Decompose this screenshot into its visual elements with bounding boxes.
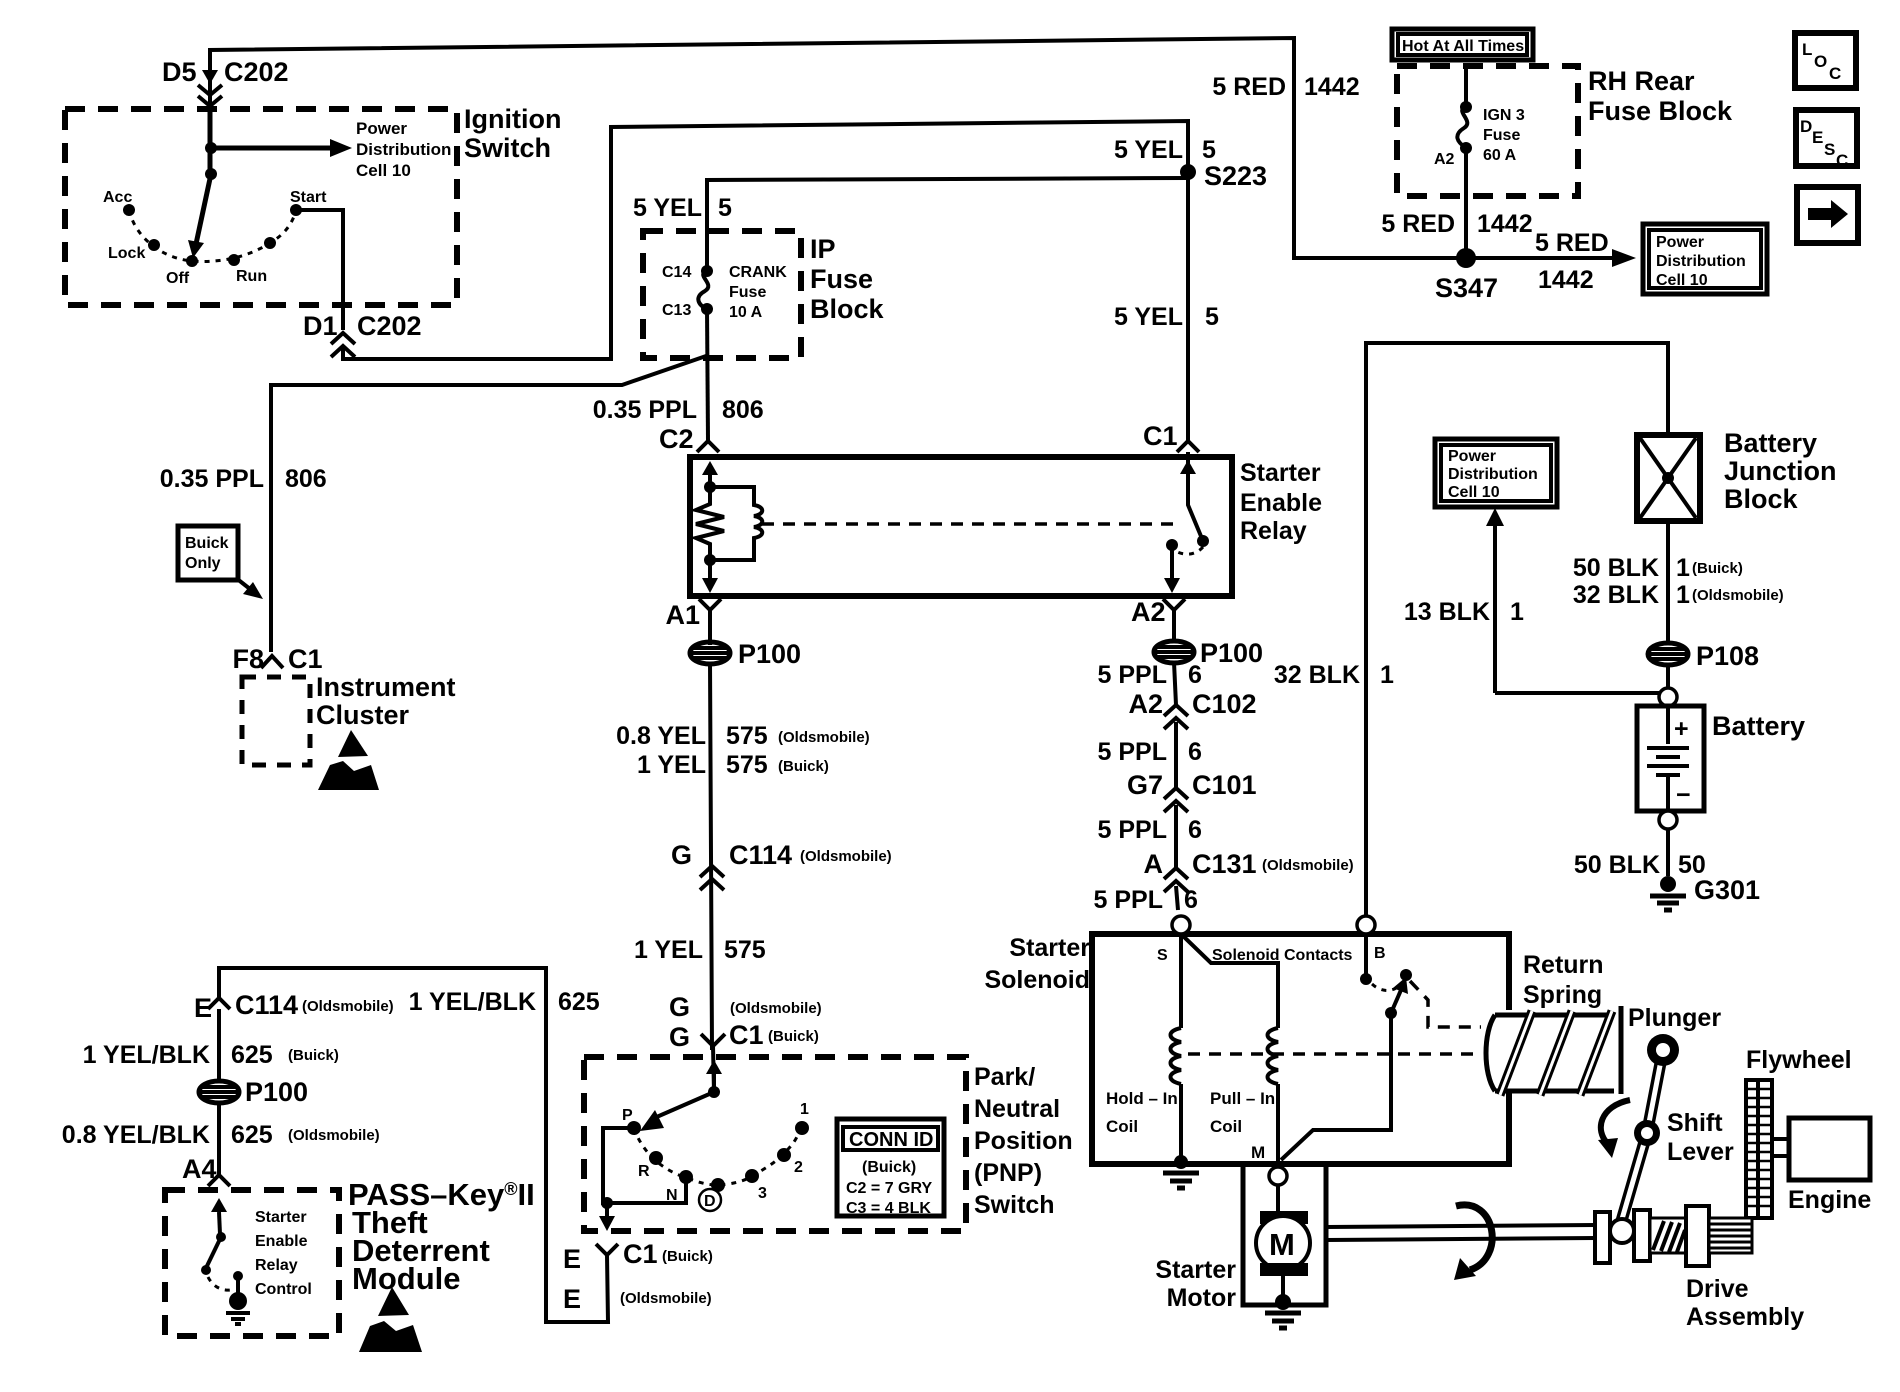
svg-text:Fuse: Fuse — [729, 284, 766, 301]
svg-text:50 BLK: 50 BLK — [1573, 554, 1659, 582]
wire: battery + to power distribution (13 BLK) — [1493, 524, 1497, 693]
Buick Only callout box — [178, 526, 238, 580]
svg-text:C14: C14 — [662, 264, 691, 281]
svg-text:1 YEL: 1 YEL — [637, 751, 706, 779]
Power Distribution Cell 10 box (battery) — [1435, 439, 1557, 507]
svg-text:Neutral: Neutral — [974, 1095, 1060, 1123]
svg-text:P: P — [622, 1107, 633, 1124]
wire: motor to ground — [1281, 1276, 1285, 1300]
svg-text:Position: Position — [974, 1127, 1073, 1155]
contact Start — [290, 204, 302, 216]
wire: B terminal to fixed contact — [1364, 934, 1368, 976]
svg-text:625: 625 — [231, 1041, 273, 1069]
contact Lock — [148, 239, 160, 251]
svg-text:10 A: 10 A — [729, 304, 763, 321]
mechanical dashed link contacts to plunger — [1410, 981, 1481, 1027]
svg-text:Plunger: Plunger — [1628, 1004, 1721, 1032]
connector D5 C202 (arrow + double chevron) — [198, 70, 222, 106]
svg-text:0.8 YEL: 0.8 YEL — [616, 722, 706, 750]
svg-text:C114: C114 — [235, 990, 298, 1020]
svg-text:5: 5 — [1205, 303, 1219, 331]
svg-text:IP: IP — [810, 234, 836, 264]
svg-text:1442: 1442 — [1477, 210, 1533, 238]
svg-text:E: E — [194, 993, 212, 1023]
svg-text:50 BLK: 50 BLK — [1574, 851, 1660, 879]
contact N — [679, 1170, 693, 1184]
svg-text:P100: P100 — [1200, 638, 1263, 668]
connector A C131 (Oldsmobile) double chevron — [1164, 868, 1188, 892]
contact Off — [186, 255, 198, 267]
svg-text:Cell 10: Cell 10 — [356, 161, 411, 180]
wire: M contact link inside solenoid — [1281, 1013, 1391, 1160]
terminal B (circle) — [1357, 916, 1375, 934]
svg-text:Battery: Battery — [1712, 711, 1805, 741]
svg-text:Block: Block — [1724, 484, 1799, 514]
svg-text:C1: C1 — [729, 1020, 764, 1050]
connector P108 — [1648, 643, 1688, 665]
engine block — [1789, 1118, 1870, 1180]
svg-text:C1: C1 — [288, 644, 323, 674]
svg-text:Spring: Spring — [1523, 981, 1602, 1009]
svg-text:G: G — [671, 840, 692, 870]
svg-text:Motor: Motor — [1167, 1284, 1237, 1312]
svg-text:5 RED: 5 RED — [1535, 229, 1609, 257]
svg-text:(Buick): (Buick) — [862, 1159, 916, 1176]
svg-text:Starter: Starter — [1240, 459, 1321, 487]
wire into PNP box — [713, 1046, 714, 1092]
node: coil bottom — [704, 554, 716, 566]
pull-in coil branch — [1181, 934, 1278, 1162]
svg-text:32 BLK: 32 BLK — [1274, 661, 1360, 689]
svg-text:(Oldsmobile): (Oldsmobile) — [1692, 587, 1784, 604]
instrument cluster dashed box — [242, 677, 310, 765]
relay coil input arrow (C2 side) — [708, 470, 712, 484]
PNP contact arc (dashed) — [634, 1128, 800, 1185]
svg-text:D: D — [1800, 117, 1812, 136]
ground (starter motor) — [1265, 1294, 1301, 1328]
connector A4 — [208, 1175, 230, 1186]
svg-text:13 BLK: 13 BLK — [1404, 598, 1490, 626]
CONN ID table — [837, 1119, 944, 1217]
contact R — [649, 1151, 663, 1165]
svg-text:Engine: Engine — [1788, 1186, 1871, 1214]
crankshaft link flywheel to engine — [1772, 1139, 1789, 1156]
contact Run — [228, 254, 240, 266]
svg-text:806: 806 — [722, 396, 764, 424]
wire: arrow to Power Distribution Cell 10 — [211, 146, 332, 151]
svg-text:CRANK: CRANK — [729, 264, 787, 281]
fuse CRANK 10A (element) — [698, 265, 713, 315]
svg-text:Solenoid: Solenoid — [984, 966, 1090, 994]
svg-text:RH Rear: RH Rear — [1588, 66, 1695, 96]
svg-text:E: E — [563, 1244, 581, 1274]
wire: Start to D1 — [296, 210, 343, 330]
node: junction dot to power distribution — [205, 142, 217, 154]
wire: 13 BLK tap — [1495, 691, 1659, 695]
node: coil top — [704, 481, 716, 493]
starter motor M1 — [1256, 1211, 1310, 1276]
svg-text:6: 6 — [1184, 886, 1198, 914]
wire: D5 into switch, junction — [208, 104, 213, 174]
svg-text:CONN ID: CONN ID — [849, 1129, 933, 1151]
wire: fuse output to S347 — [1464, 148, 1468, 258]
svg-text:(Oldsmobile): (Oldsmobile) — [288, 1127, 380, 1144]
svg-text:5 PPL: 5 PPL — [1098, 816, 1167, 844]
svg-text:C102: C102 — [1192, 689, 1257, 719]
svg-text:1: 1 — [1510, 598, 1524, 626]
svg-text:C3 = 4 BLK: C3 = 4 BLK — [846, 1200, 931, 1217]
svg-text:Hot At All Times: Hot At All Times — [1402, 38, 1524, 55]
svg-text:0.8 YEL/BLK: 0.8 YEL/BLK — [62, 1121, 210, 1149]
svg-text:C: C — [1829, 64, 1841, 83]
node: battery positive terminal (circle) — [1659, 688, 1677, 706]
svg-text:Buick: Buick — [185, 535, 229, 552]
svg-text:5 YEL: 5 YEL — [1114, 136, 1183, 164]
svg-text:Shift: Shift — [1667, 1109, 1723, 1137]
node: hold-in coil to ground — [1174, 1155, 1188, 1169]
connector A1 (relay output fork) — [699, 599, 721, 610]
svg-text:O: O — [1814, 52, 1827, 71]
svg-text:Pull – In: Pull – In — [1210, 1089, 1275, 1108]
svg-text:(Oldsmobile): (Oldsmobile) — [730, 1000, 822, 1017]
svg-text:Switch: Switch — [974, 1191, 1055, 1219]
connector P100 (PASS-Key wire) — [199, 1081, 239, 1103]
svg-text:3: 3 — [758, 1185, 767, 1202]
PASS-Key internal feed arrow — [219, 1212, 220, 1234]
svg-text:1: 1 — [800, 1101, 809, 1118]
LOC legend box — [1795, 33, 1856, 88]
relay resistor (parallel with coil) — [696, 487, 724, 560]
wire: S223 down to relay C1 — [1186, 172, 1190, 440]
svg-text:5 YEL: 5 YEL — [1114, 303, 1183, 331]
svg-text:C2: C2 — [659, 424, 694, 454]
svg-text:0.35 PPL: 0.35 PPL — [160, 465, 264, 493]
connector P100 (A1 wire) — [690, 642, 730, 664]
wire: A1 down to PNP switch — [710, 610, 712, 1050]
svg-text:S223: S223 — [1204, 161, 1267, 191]
svg-text:Flywheel: Flywheel — [1746, 1046, 1852, 1074]
svg-text:5 PPL: 5 PPL — [1094, 886, 1163, 914]
svg-text:6: 6 — [1188, 661, 1202, 689]
svg-text:Enable: Enable — [255, 1233, 308, 1250]
svg-text:Cell 10: Cell 10 — [1448, 484, 1500, 501]
svg-text:32 BLK: 32 BLK — [1573, 581, 1659, 609]
svg-text:1: 1 — [1676, 554, 1690, 582]
connector G C114 (Oldsmobile) double chevron — [700, 866, 724, 890]
wire: battery to G301 — [1666, 829, 1670, 876]
svg-text:Starter: Starter — [1155, 1256, 1236, 1284]
svg-text:A2: A2 — [1434, 151, 1455, 168]
svg-text:Cell 10: Cell 10 — [1656, 272, 1708, 289]
ignition switch wiper arm — [205, 168, 217, 180]
svg-text:6: 6 — [1188, 738, 1202, 766]
svg-text:Fuse Block: Fuse Block — [1588, 96, 1733, 126]
wire: junction block to P108 — [1666, 521, 1670, 689]
svg-text:1 YEL: 1 YEL — [634, 936, 703, 964]
connector D1 C202 (double chevron) — [331, 333, 355, 357]
svg-text:Enable: Enable — [1240, 489, 1322, 517]
fixed contact (right) — [1400, 969, 1412, 981]
relay U1: Starter Enable Relay box — [690, 457, 1232, 596]
svg-text:A: A — [1144, 849, 1164, 879]
svg-text:C114: C114 — [729, 840, 792, 870]
contact 1 — [795, 1121, 809, 1135]
solenoid movable contact — [1385, 1007, 1397, 1019]
ground G301 — [1650, 876, 1686, 910]
svg-text:575: 575 — [726, 751, 768, 779]
battery BT1 — [1637, 706, 1704, 811]
svg-text:(Oldsmobile): (Oldsmobile) — [1262, 857, 1354, 874]
wire: PNP output loop to PASS-Key module — [219, 968, 608, 1322]
svg-text:5 PPL: 5 PPL — [1098, 738, 1167, 766]
shaft rotation arrow — [1454, 1205, 1492, 1280]
svg-text:IGN 3: IGN 3 — [1483, 107, 1525, 124]
svg-text:Power: Power — [356, 119, 407, 138]
forward legend box (arrow) — [1797, 187, 1858, 243]
svg-text:(Buick): (Buick) — [662, 1248, 713, 1265]
svg-text:Switch: Switch — [464, 133, 551, 163]
ignition rotary contact arc (dashed) — [129, 210, 296, 261]
svg-text:(Oldsmobile): (Oldsmobile) — [302, 998, 394, 1015]
battery junction block — [1637, 435, 1700, 521]
wire: D1 to S223 via loop — [343, 121, 1188, 359]
PNP wiper feed arrow — [712, 1072, 716, 1092]
svg-text:625: 625 — [231, 1121, 273, 1149]
relay mechanical dashed link — [762, 522, 1178, 526]
drive assembly — [1595, 1206, 1752, 1266]
wire: fuse C13 down to relay C2 — [707, 309, 708, 440]
connector E C1 (Buick) fork — [596, 1244, 618, 1255]
svg-text:Starter: Starter — [1009, 934, 1090, 962]
connector A2 C102 double chevron — [1164, 705, 1188, 729]
connector C1 (relay) — [1177, 441, 1199, 452]
svg-text:P100: P100 — [738, 639, 801, 669]
wire: S347 arrow to power distribution — [1466, 256, 1614, 260]
svg-text:S: S — [1824, 140, 1835, 159]
PASS-Key switch arm (starter enable relay control) — [216, 1232, 226, 1242]
svg-text:5 RED: 5 RED — [1212, 73, 1286, 101]
svg-text:5 PPL: 5 PPL — [1098, 661, 1167, 689]
connector F8 C1 — [261, 656, 283, 668]
svg-text:Module: Module — [352, 1261, 461, 1296]
node: battery negative terminal (circle) — [1659, 811, 1677, 829]
svg-text:Hold – In: Hold – In — [1106, 1089, 1178, 1108]
ESD warning symbol (PASS-Key) — [359, 1287, 422, 1352]
svg-text:C202: C202 — [224, 57, 289, 87]
Buick Only leader arrow — [236, 578, 250, 589]
svg-text:(Oldsmobile): (Oldsmobile) — [800, 848, 892, 865]
svg-text:1: 1 — [1380, 661, 1394, 689]
hold-in coil L2 — [1171, 1028, 1182, 1084]
svg-text:(Buick): (Buick) — [288, 1047, 339, 1064]
svg-text:C13: C13 — [662, 302, 691, 319]
RH Rear Fuse Block dashed box — [1397, 66, 1578, 196]
svg-text:D: D — [704, 1193, 716, 1210]
ground (solenoid) — [1163, 1173, 1199, 1188]
PNP output arrow — [605, 1203, 609, 1218]
svg-text:C1: C1 — [623, 1239, 658, 1269]
svg-text:A2: A2 — [1131, 597, 1166, 627]
starter solenoid box — [1092, 934, 1509, 1164]
connector E C114 (Oldsmobile) — [208, 998, 230, 1009]
svg-text:B: B — [1374, 945, 1386, 962]
contact 3 — [745, 1169, 759, 1183]
svg-text:1442: 1442 — [1538, 266, 1594, 294]
svg-text:D5: D5 — [162, 57, 197, 87]
pull-in coil L3 — [1268, 1028, 1279, 1084]
svg-text:60 A: 60 A — [1483, 147, 1517, 164]
connector C2 (relay) — [697, 441, 719, 452]
svg-text:Power: Power — [1656, 234, 1704, 251]
svg-text:R: R — [638, 1163, 650, 1180]
svg-text:(Oldsmobile): (Oldsmobile) — [620, 1290, 712, 1307]
svg-text:Junction: Junction — [1724, 456, 1837, 486]
motor shaft — [1326, 1225, 1596, 1240]
svg-text:Distribution: Distribution — [356, 140, 451, 159]
svg-text:6: 6 — [1188, 816, 1202, 844]
svg-text:C1: C1 — [1143, 421, 1178, 451]
connector P100 (A2 wire) — [1154, 641, 1194, 663]
svg-text:E: E — [1812, 128, 1823, 147]
svg-text:F8: F8 — [232, 644, 264, 674]
connector G C1 (Buick) fork — [701, 1034, 725, 1046]
node S223 — [1180, 164, 1196, 180]
svg-text:Drive: Drive — [1686, 1275, 1749, 1303]
svg-text:M: M — [1251, 1143, 1265, 1162]
svg-text:Power: Power — [1448, 448, 1496, 465]
svg-text:5 RED: 5 RED — [1381, 210, 1455, 238]
relay coil L1 — [710, 487, 762, 560]
svg-text:−: − — [1676, 781, 1691, 809]
wire: E down to PASS-Key — [217, 1009, 221, 1175]
svg-text:Lock: Lock — [108, 245, 145, 262]
svg-text:Only: Only — [185, 555, 221, 572]
svg-text:Run: Run — [236, 268, 267, 285]
relay switch (C1 side) — [1186, 452, 1190, 472]
wire: M to motor — [1276, 1185, 1280, 1214]
svg-text:C131: C131 — [1192, 849, 1257, 879]
svg-text:Coil: Coil — [1210, 1117, 1242, 1136]
wire: top feed from S347 to ignition switch D5 — [210, 38, 1462, 258]
wire: S223 left branch to CRANK fuse — [707, 178, 1188, 267]
svg-text:625: 625 — [558, 988, 600, 1016]
connector A2 (relay output fork) — [1163, 599, 1185, 610]
svg-text:(Buick): (Buick) — [778, 758, 829, 775]
svg-text:Return: Return — [1523, 951, 1604, 979]
svg-text:Distribution: Distribution — [1448, 466, 1538, 483]
svg-text:(Buick): (Buick) — [1692, 560, 1743, 577]
ignition switch dashed box — [65, 109, 457, 305]
svg-text:1442: 1442 — [1304, 73, 1360, 101]
svg-text:1: 1 — [1676, 581, 1690, 609]
svg-text:C202: C202 — [357, 311, 422, 341]
starter motor enclosure — [1243, 1164, 1326, 1305]
svg-text:1 YEL/BLK: 1 YEL/BLK — [409, 988, 536, 1016]
hold-in coil branch — [1179, 934, 1183, 1162]
svg-text:Distribution: Distribution — [1656, 253, 1746, 270]
svg-text:Park/: Park/ — [974, 1063, 1035, 1091]
svg-text:Coil: Coil — [1106, 1117, 1138, 1136]
wire: solenoid B up and over to battery junction block — [1366, 343, 1668, 916]
wire into IGN3 fuse — [1464, 66, 1468, 104]
svg-text:Assembly: Assembly — [1686, 1303, 1804, 1331]
contact P — [627, 1121, 641, 1135]
fuse IGN 3 60 A (element) — [1457, 101, 1472, 154]
contact Acc — [123, 204, 135, 216]
svg-text:Acc: Acc — [103, 189, 132, 206]
terminal M (circle) — [1269, 1167, 1287, 1185]
PASS-Key actuator dashed arc — [208, 1277, 231, 1290]
svg-text:5: 5 — [718, 194, 732, 222]
contact travel dashed arc — [1372, 981, 1404, 990]
contact (between Run and Start) — [264, 237, 276, 249]
svg-text:D1: D1 — [303, 311, 338, 341]
DESC legend box — [1796, 110, 1857, 170]
svg-text:S347: S347 — [1435, 273, 1498, 303]
svg-text:Fuse: Fuse — [810, 264, 873, 294]
node S347 — [1456, 248, 1476, 268]
svg-text:(Buick): (Buick) — [768, 1028, 819, 1045]
connector G7 C101 double chevron — [1164, 788, 1188, 812]
svg-text:Battery: Battery — [1724, 428, 1817, 458]
wire: branch from fuse to instrument cluster — [271, 355, 709, 652]
svg-text:A2: A2 — [1128, 689, 1163, 719]
plunger cylinder with return spring — [1486, 1006, 1621, 1095]
svg-text:G7: G7 — [1127, 770, 1163, 800]
svg-text:Fuse: Fuse — [1483, 127, 1520, 144]
contact D (circled) — [711, 1178, 725, 1192]
svg-text:1 YEL/BLK: 1 YEL/BLK — [83, 1041, 210, 1069]
flywheel ring gear — [1746, 1080, 1772, 1218]
svg-text:Lever: Lever — [1667, 1138, 1734, 1166]
PASS-Key II module dashed box — [165, 1190, 339, 1336]
svg-text:5: 5 — [1202, 136, 1216, 164]
svg-text:Relay: Relay — [1240, 517, 1307, 545]
svg-text:806: 806 — [285, 465, 327, 493]
relay output arrow to A1 — [708, 560, 712, 580]
svg-text:C2 = 7 GRY: C2 = 7 GRY — [846, 1180, 932, 1197]
svg-text:Start: Start — [290, 189, 327, 206]
shift lever linkage — [1620, 1034, 1679, 1226]
contact 2 — [777, 1148, 791, 1162]
PNP switch dashed box — [584, 1057, 966, 1231]
svg-text:C: C — [1836, 151, 1848, 170]
PASS-Key relay actuator symbol — [226, 1271, 250, 1324]
svg-text:5 YEL: 5 YEL — [633, 194, 702, 222]
mechanical dashed axis coils to plunger — [1188, 1052, 1481, 1056]
svg-text:Instrument: Instrument — [316, 672, 456, 702]
relay contact travel (dashed arc) — [1174, 547, 1203, 554]
svg-text:575: 575 — [724, 936, 766, 964]
IP fuse block dashed box — [643, 231, 801, 358]
svg-text:Relay: Relay — [255, 1257, 298, 1274]
svg-text:0.35 PPL: 0.35 PPL — [593, 396, 697, 424]
svg-text:G301: G301 — [1694, 875, 1760, 905]
relay switch output arrow to A2 — [1170, 545, 1174, 580]
svg-text:A4: A4 — [182, 1154, 217, 1184]
shift lever rotation arrow — [1601, 1100, 1630, 1144]
svg-text:575: 575 — [726, 722, 768, 750]
svg-text:Block: Block — [810, 294, 885, 324]
Hot At All Times callout — [1392, 29, 1533, 60]
PNP wiper arm — [708, 1086, 720, 1098]
svg-text:L: L — [1802, 40, 1812, 59]
Power Distribution Cell 10 box (top right) — [1643, 224, 1767, 294]
svg-text:G: G — [669, 992, 690, 1022]
svg-text:Off: Off — [166, 270, 190, 287]
svg-text:+: + — [1674, 715, 1689, 743]
svg-text:E: E — [563, 1284, 581, 1314]
